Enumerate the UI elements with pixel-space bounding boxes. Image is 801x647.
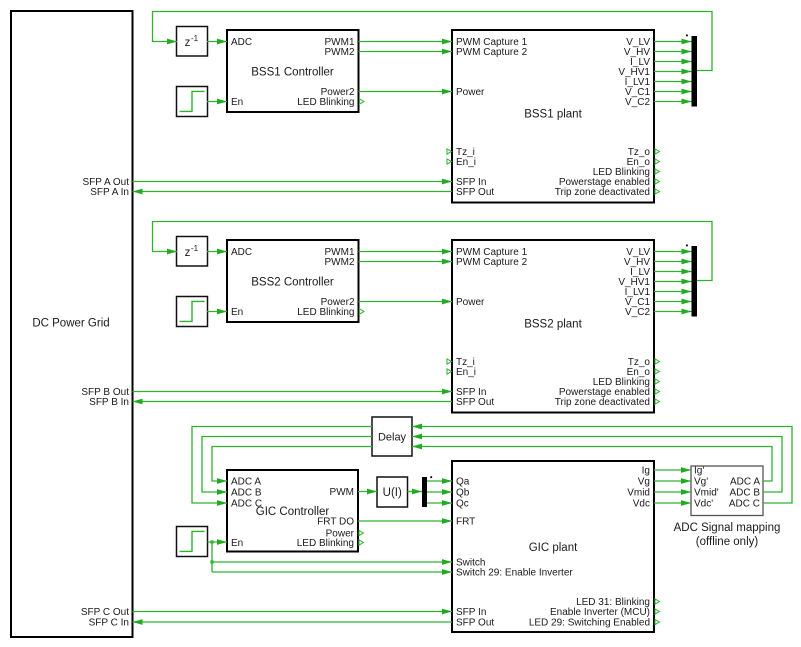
svg-text:Qa: Qa — [456, 477, 470, 488]
svg-text:PWM2: PWM2 — [325, 257, 355, 268]
wire Vg to Vg' — [654, 478, 691, 484]
svg-text:Trip zone deactivated: Trip zone deactivated — [555, 397, 650, 408]
wire PWM2 row2 — [359, 259, 453, 265]
block U(I) lookup — [377, 477, 408, 507]
svg-text:Power: Power — [456, 87, 485, 98]
wire SFP B Out — [133, 389, 453, 395]
wire Z1 to ADC — [207, 39, 227, 45]
svg-text:En: En — [231, 538, 243, 549]
svg-text:Power: Power — [456, 297, 485, 308]
wire I_LV1 row2 to mux — [654, 289, 692, 295]
svg-text:SFP In: SFP In — [456, 607, 486, 618]
svg-text:Vdc: Vdc — [633, 499, 650, 510]
svg-text:Vg: Vg — [638, 477, 650, 488]
wire Z2 to ADC — [207, 249, 227, 255]
junction En junction — [210, 540, 213, 543]
svg-text:ADC B: ADC B — [729, 488, 760, 499]
svg-text:(offline only): (offline only) — [696, 536, 759, 548]
svg-text:En: En — [231, 307, 243, 318]
svg-text:Qc: Qc — [456, 499, 469, 510]
block BSS1 Controller — [227, 30, 364, 112]
wire demux to Qc — [427, 500, 452, 506]
svg-text:ADC Signal mapping: ADC Signal mapping — [674, 522, 781, 534]
svg-text:U(I): U(I) — [383, 487, 402, 499]
svg-text:ADC: ADC — [231, 37, 252, 48]
svg-text:SFP C Out: SFP C Out — [81, 607, 129, 618]
wire Delay out to ADC B — [202, 437, 372, 495]
wire Switch — [212, 559, 452, 565]
svg-text:Qb: Qb — [456, 488, 470, 499]
svg-text:PWM Capture 2: PWM Capture 2 — [456, 47, 528, 58]
wire V_HV row2 to mux — [654, 259, 692, 265]
svg-text:FRT: FRT — [456, 517, 475, 528]
svg-text:ADC A: ADC A — [231, 477, 261, 488]
svg-text:Ig': Ig' — [694, 466, 704, 477]
wire En branch down — [211, 542, 213, 572]
wire ADC A loopback — [412, 444, 772, 481]
svg-text:BSS1 Controller: BSS1 Controller — [251, 67, 334, 79]
svg-text:FRT DO: FRT DO — [317, 517, 354, 528]
svg-text:V_C2: V_C2 — [625, 307, 650, 318]
svg-text:Switch 29: Enable Inverter: Switch 29: Enable Inverter — [456, 568, 573, 579]
svg-text:Vdc': Vdc' — [694, 499, 713, 510]
unit delay Z2 — [177, 237, 208, 267]
wire V_LV row1 to mux — [654, 39, 692, 45]
svg-text:PWM2: PWM2 — [325, 47, 355, 58]
block GIC Controller — [227, 470, 364, 552]
svg-text:ADC A: ADC A — [730, 477, 760, 488]
svg-text:LED Blinking: LED Blinking — [297, 97, 354, 108]
svg-text:Delay: Delay — [378, 431, 407, 443]
junction Switch junction — [210, 560, 213, 563]
wire Step3 to En — [208, 539, 228, 545]
wire Step2 to En — [207, 309, 227, 315]
block BSS2 plant — [447, 240, 660, 413]
wire PWM2 row1 — [359, 49, 453, 55]
block DC Power Grid — [11, 11, 133, 637]
svg-text:ADC B: ADC B — [231, 488, 262, 499]
wire V_C2 row1 to mux — [654, 99, 692, 105]
wire U(I) to demux — [408, 489, 423, 495]
svg-text:-1: -1 — [191, 244, 199, 253]
wire V_LV row2 to mux — [654, 249, 692, 255]
wire SFP A In — [133, 189, 453, 195]
wire SFP A Out — [133, 179, 453, 185]
wire ADC C loopback — [412, 424, 792, 503]
svg-text:ADC C: ADC C — [231, 499, 262, 510]
svg-text:BSS2 Controller: BSS2 Controller — [251, 277, 334, 289]
svg-text:SFP Out: SFP Out — [456, 397, 494, 408]
wire FRT DO to FRT — [358, 518, 452, 524]
step source Step3 — [177, 527, 208, 557]
wire Delay out to ADC A — [212, 447, 372, 484]
wire V_C2 row2 to mux — [654, 309, 692, 315]
wire demux to Qa — [427, 478, 452, 484]
svg-text:GIC plant: GIC plant — [529, 542, 578, 554]
block BSS1 plant — [447, 30, 660, 203]
mux M1 — [686, 35, 697, 107]
wire V_HV row1 to mux — [654, 49, 692, 55]
wire V_HV1 row2 to mux — [654, 279, 692, 285]
svg-text:En_i: En_i — [456, 157, 476, 168]
wire PWM1 row1 — [359, 39, 453, 45]
svg-text:Ig: Ig — [642, 466, 650, 477]
wire demux to Qb — [427, 489, 452, 495]
wire feedback mux2 to Z2 — [153, 222, 713, 281]
unit delay Z1 — [177, 27, 208, 57]
svg-text:BSS1 plant: BSS1 plant — [524, 109, 582, 121]
wire V_C1 row2 to mux — [654, 299, 692, 305]
svg-text:Vmid: Vmid — [627, 488, 650, 499]
svg-text:SFP A In: SFP A In — [90, 187, 129, 198]
svg-text:BSS2 plant: BSS2 plant — [524, 319, 582, 331]
mux M2 — [686, 245, 697, 317]
wire Power2 row1 — [359, 89, 453, 95]
svg-text:Vg': Vg' — [694, 477, 708, 488]
wire Delay out to ADC C — [192, 427, 372, 506]
step source Step1 — [177, 87, 208, 117]
step source Step2 — [177, 297, 208, 327]
svg-text:Vmid': Vmid' — [694, 488, 719, 499]
wire V_C1 row1 to mux — [654, 89, 692, 95]
wire SFP C In — [133, 619, 453, 625]
svg-text:SFP Out: SFP Out — [456, 187, 494, 198]
wire I_LV1 row1 to mux — [654, 79, 692, 85]
svg-text:SFP B In: SFP B In — [89, 397, 129, 408]
block BSS2 Controller — [227, 240, 364, 322]
svg-text:En: En — [231, 97, 243, 108]
wire ADC B loopback — [412, 434, 782, 492]
wire Switch 29 — [212, 569, 452, 575]
block Delay — [372, 417, 412, 456]
wire feedback mux1 to Z1 — [153, 12, 713, 71]
svg-text:V_C2: V_C2 — [625, 97, 650, 108]
wire PWM to U(I) — [358, 489, 377, 495]
svg-text:ADC C: ADC C — [729, 499, 760, 510]
svg-text:DC Power Grid: DC Power Grid — [32, 318, 109, 330]
svg-text:LED Blinking: LED Blinking — [297, 538, 354, 549]
wire Ig to Ig' — [654, 467, 691, 473]
svg-text:En_i: En_i — [456, 367, 476, 378]
wire Power2 row2 — [359, 299, 453, 305]
block ADC Signal mapping — [674, 466, 781, 549]
block GIC plant — [452, 461, 660, 632]
wire PWM1 row2 — [359, 249, 453, 255]
demux D3 — [422, 476, 432, 507]
wire SFP C Out — [133, 609, 453, 615]
svg-text:-1: -1 — [191, 34, 199, 43]
wire I_LV row2 to mux — [654, 269, 692, 275]
svg-text:SFP C In: SFP C In — [89, 618, 129, 629]
svg-text:PWM Capture 2: PWM Capture 2 — [456, 257, 528, 268]
wire Vmid to Vmid' — [654, 489, 691, 495]
svg-text:z: z — [185, 247, 191, 259]
wire SFP B In — [133, 399, 453, 405]
svg-text:LED Blinking: LED Blinking — [297, 307, 354, 318]
svg-text:Trip zone deactivated: Trip zone deactivated — [555, 187, 650, 198]
wire Vdc to Vdc' — [654, 500, 691, 506]
wire I_LV row1 to mux — [654, 59, 692, 65]
wire Step1 to En — [207, 99, 227, 105]
wire V_HV1 row1 to mux — [654, 69, 692, 75]
svg-text:SFP Out: SFP Out — [456, 618, 494, 629]
svg-text:LED 29: Switching Enabled: LED 29: Switching Enabled — [529, 618, 650, 629]
svg-text:PWM: PWM — [330, 487, 354, 498]
svg-text:z: z — [185, 37, 191, 49]
svg-text:ADC: ADC — [231, 247, 252, 258]
svg-text:Enable Inverter (MCU): Enable Inverter (MCU) — [550, 607, 650, 618]
